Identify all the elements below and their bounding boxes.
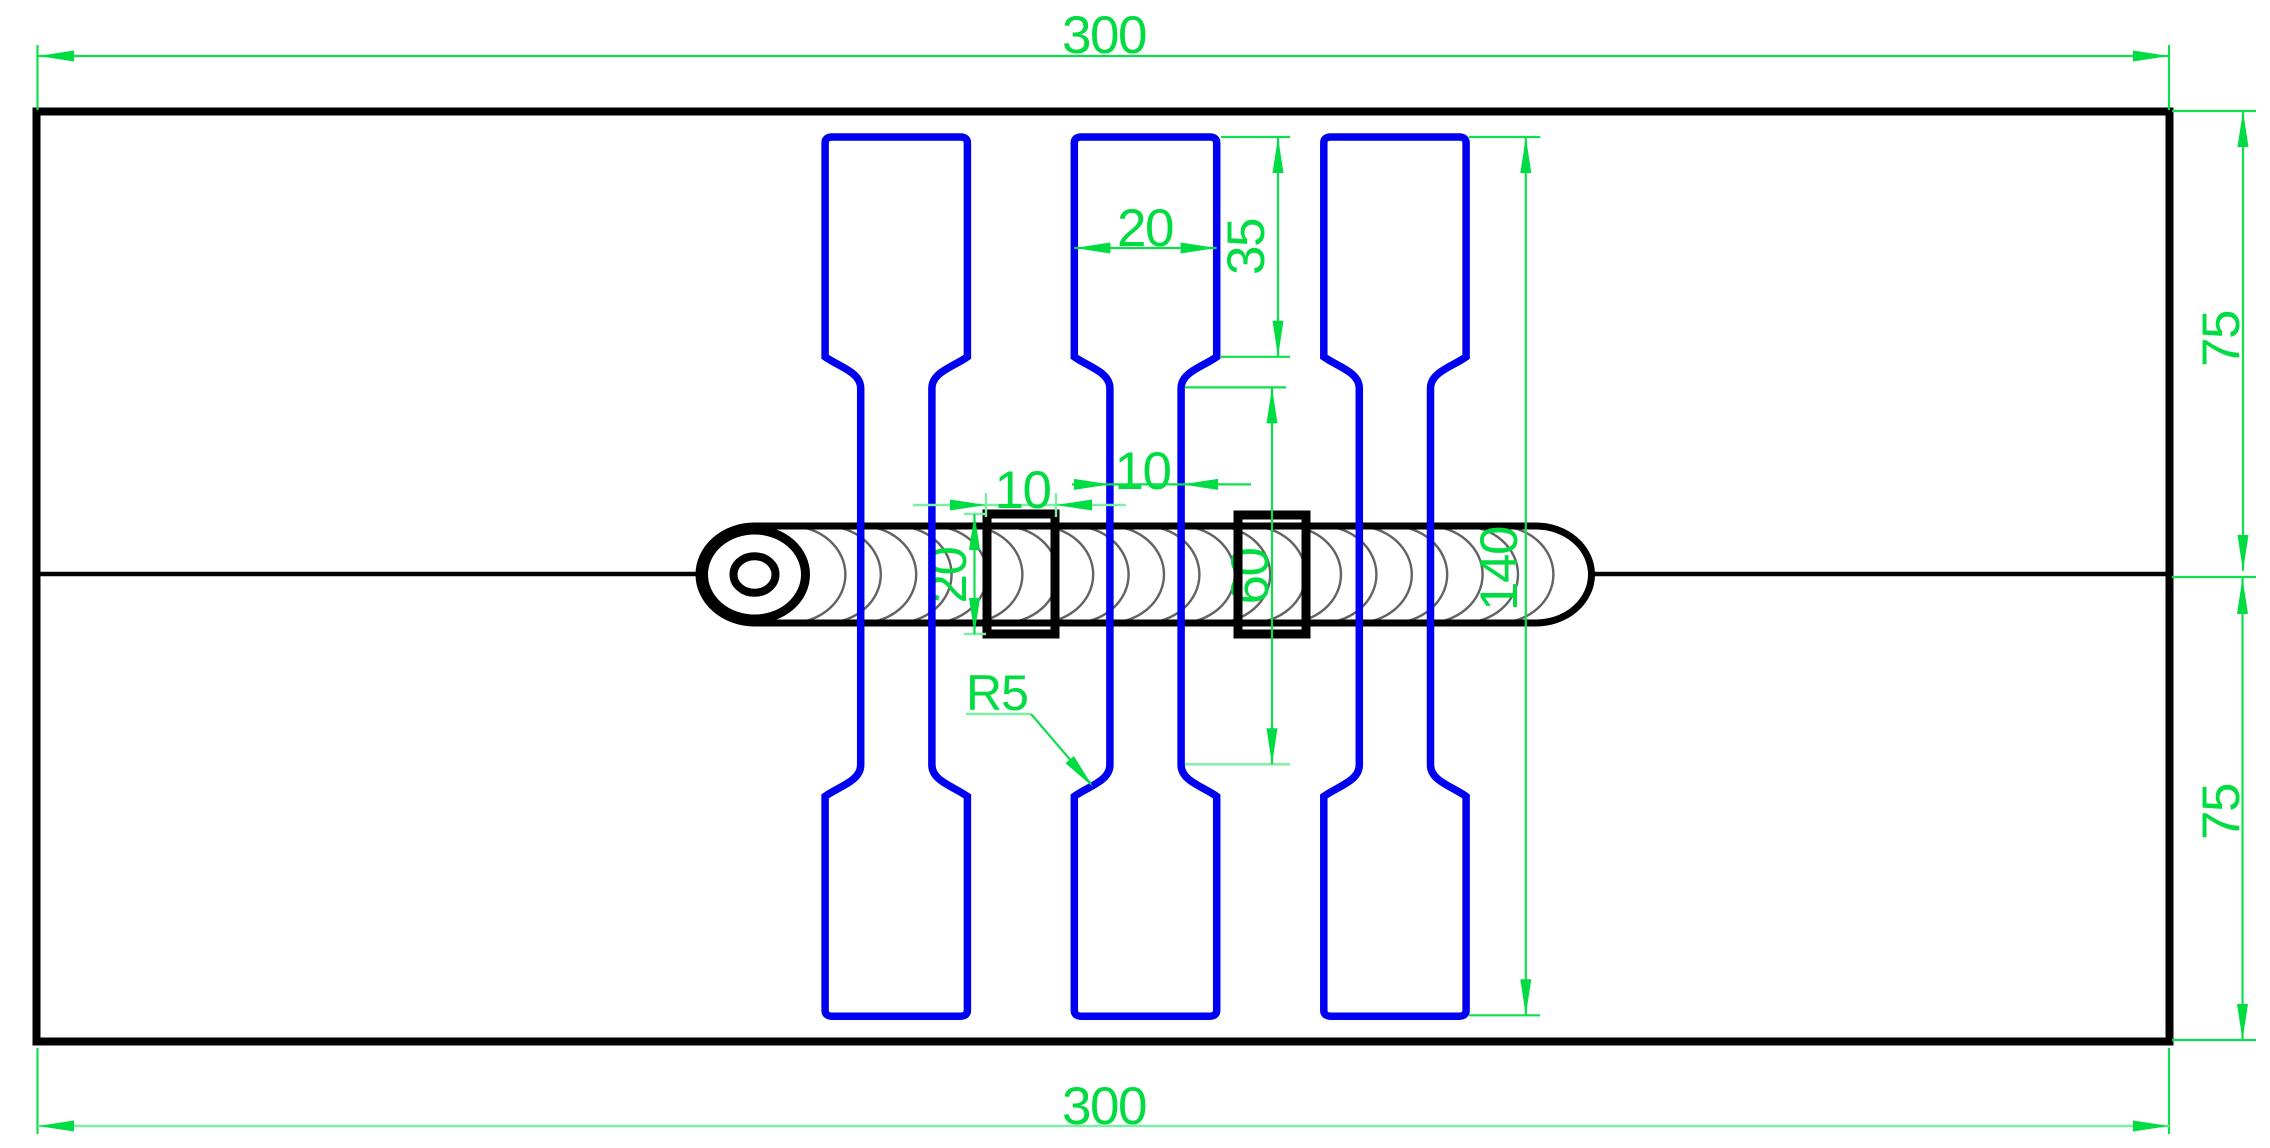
- dimension 60 gauge length: [1185, 387, 1290, 764]
- dimension 20 sample height: [964, 514, 986, 634]
- dimension 300 bottom: [38, 1048, 2170, 1136]
- dimension 300 top: [38, 6, 2170, 110]
- svg-text:35: 35: [1217, 219, 1276, 275]
- weld seam outline: [699, 526, 1592, 623]
- svg-text:20: 20: [919, 548, 978, 604]
- weld start circle: [704, 530, 806, 619]
- weld start inner circle: [734, 556, 776, 593]
- dimension 75 upper right: [2172, 111, 2256, 577]
- weld centerline: [37, 572, 2170, 577]
- dimension 10 gauge width: [1072, 442, 1251, 501]
- dimension 75 lower right: [2172, 578, 2256, 1040]
- plate outline: [37, 112, 2170, 1042]
- svg-text:300: 300: [1062, 1077, 1146, 1136]
- weld seam fill: [699, 526, 1592, 623]
- svg-text:75: 75: [2192, 784, 2251, 840]
- svg-text:10: 10: [1115, 442, 1171, 501]
- dimension 35 grip length: [1217, 137, 1290, 357]
- svg-text:75: 75: [2192, 311, 2251, 367]
- tensile specimen 1: [825, 137, 967, 1016]
- tensile specimen 3: [1324, 137, 1466, 1016]
- dimension 10 sample width: [913, 461, 1126, 520]
- dimension 20 specimen width: [1074, 199, 1216, 258]
- dimension 140 specimen length: [1469, 137, 1540, 1015]
- svg-text:140: 140: [1470, 527, 1529, 611]
- cross-section sample 1: [987, 514, 1055, 634]
- svg-text:300: 300: [1062, 6, 1146, 65]
- svg-text:R5: R5: [966, 665, 1028, 721]
- cross-section sample 2: [1238, 515, 1306, 634]
- radius label R5 with leader: [966, 665, 1093, 787]
- svg-text:10: 10: [995, 461, 1051, 520]
- svg-text:20: 20: [1117, 199, 1173, 258]
- weld bead scallops: [734, 526, 1553, 623]
- tensile specimen 2: [1074, 137, 1216, 1016]
